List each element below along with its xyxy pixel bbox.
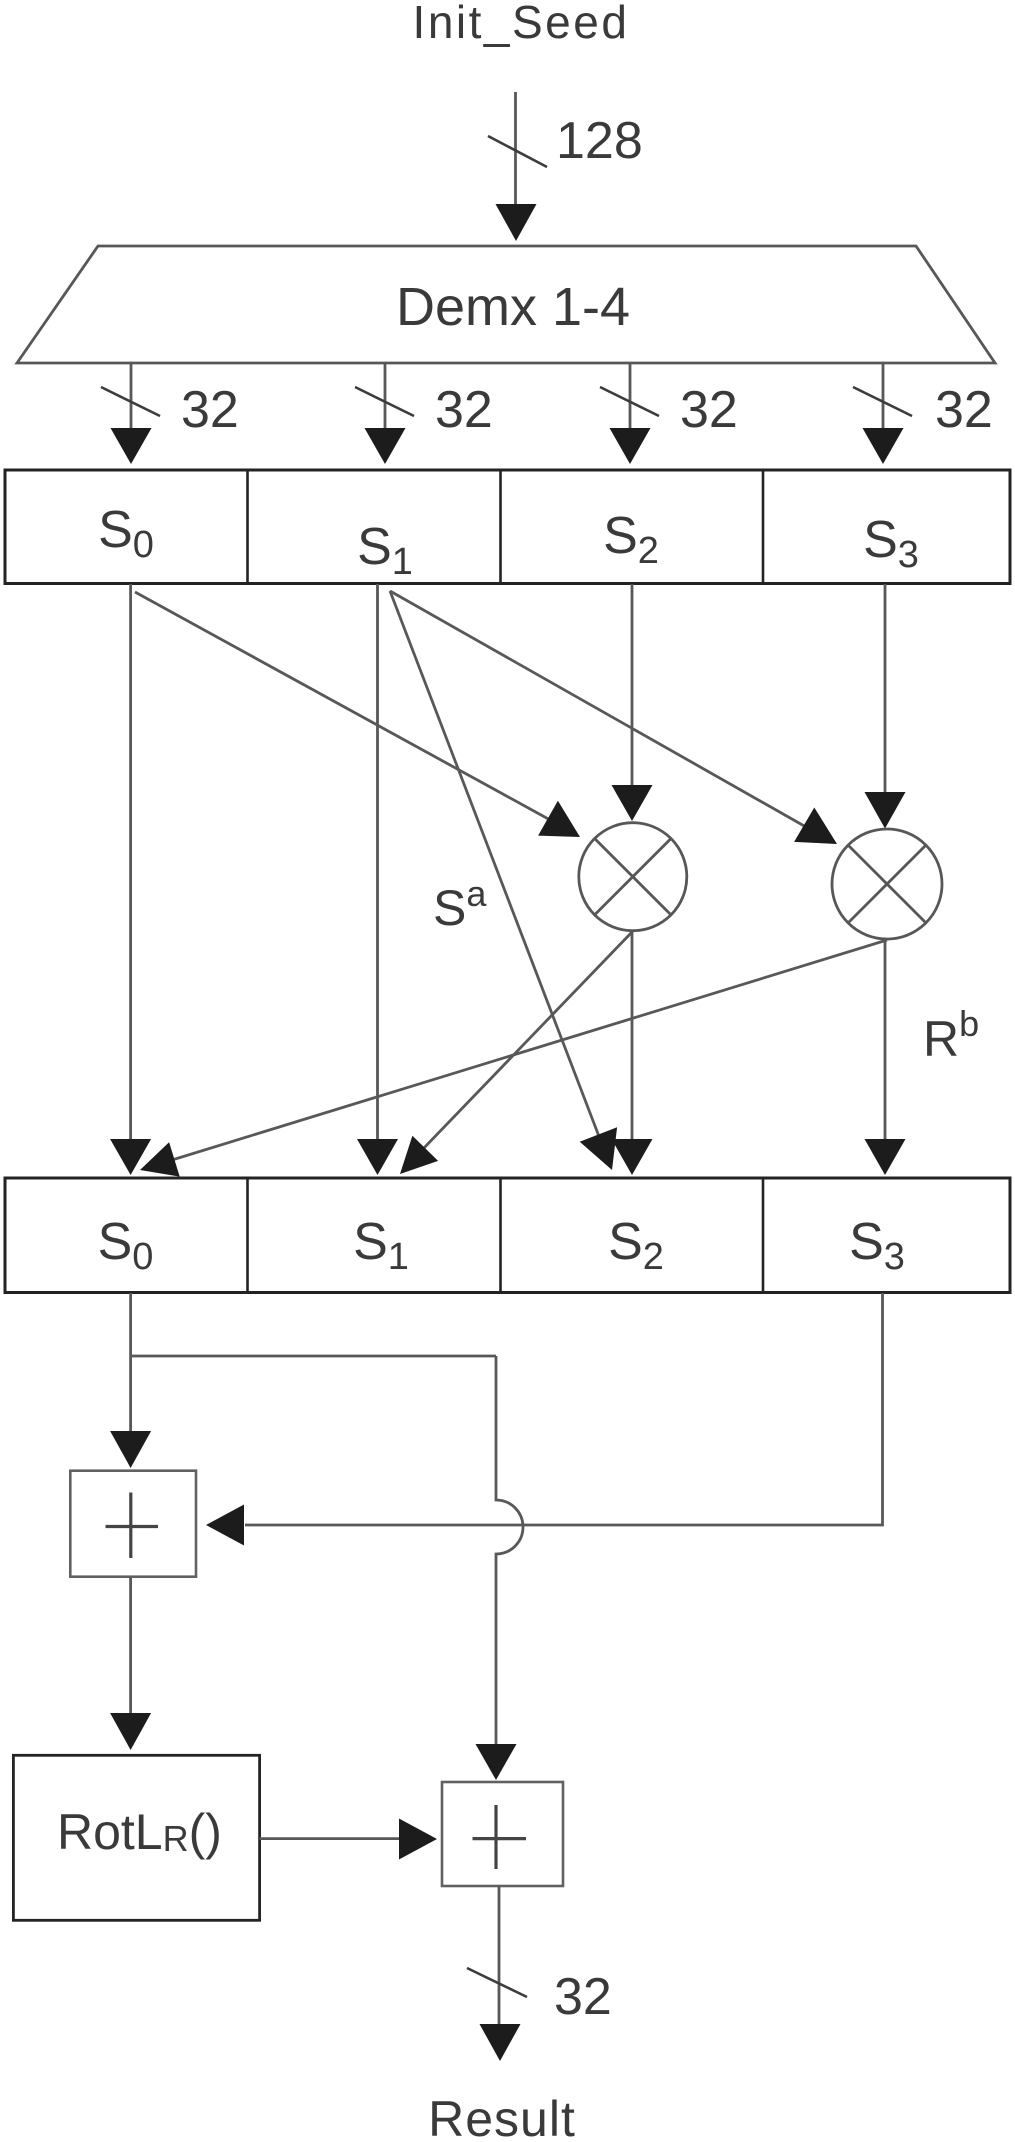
arrowhead S0 into register 2 <box>110 1139 151 1175</box>
register bank 2 divider 3 <box>762 1178 765 1293</box>
arrowhead Demx out 2 <box>610 428 651 464</box>
bus slash 32 out 2 <box>600 387 659 416</box>
wire diagonal S1 to xor2 <box>390 591 806 827</box>
xor gate 1 cross stroke 1 <box>595 839 671 915</box>
wire RotL box to adder 2 <box>260 1837 399 1840</box>
wire diagonal S0 to xor1 <box>135 592 552 821</box>
arrowhead into adder 1 top <box>110 1431 151 1468</box>
adder 2 plus vertical stroke <box>494 1805 497 1869</box>
svg-text:128: 128 <box>556 112 643 170</box>
adder 1 plus vertical stroke <box>129 1493 132 1559</box>
svg-text:Demx 1-4: Demx 1-4 <box>396 277 630 337</box>
register bank 2 divider 1 <box>246 1178 249 1293</box>
arrowhead xor2 diagonal into register 2 S0 <box>140 1142 180 1176</box>
demultiplexer Demx 1-4 trapezoid <box>17 246 995 363</box>
arrowhead xor2 into register 2 S3 <box>865 1139 906 1175</box>
adder 2 plus horizontal stroke <box>473 1837 527 1840</box>
arrowhead S1 diagonal into register 2 S2 <box>580 1127 617 1170</box>
svg-text:32: 32 <box>181 381 239 439</box>
adder 1 plus horizontal stroke <box>106 1525 159 1528</box>
wire branch S0 down with hop over feedback <box>496 1356 523 1744</box>
arrowhead into adder 2 left side <box>399 1819 437 1860</box>
adder 1 box <box>70 1471 196 1577</box>
arrowhead into adder 2 top <box>476 1744 517 1780</box>
arrowhead diagonal into xor1 left <box>538 801 580 837</box>
arrowhead diagonal into xor2 left <box>794 808 837 845</box>
register bank 1 outline <box>5 470 1010 584</box>
wire S2 down to xor1 <box>631 584 634 785</box>
wire diagonal xor1 to register 2 cell S1 <box>422 932 632 1150</box>
svg-text:32: 32 <box>680 381 738 439</box>
wire Demx out 2 <box>629 363 632 428</box>
bus slash 128 <box>488 136 547 167</box>
svg-text:32: 32 <box>935 381 993 439</box>
wire diagonal S1 to register 2 cell S2 <box>390 591 600 1139</box>
svg-text:RotLR(): RotLR() <box>57 1804 222 1860</box>
arrowhead S2 into xor1 <box>612 785 653 821</box>
arrowhead xor1 into register 2 S2 <box>612 1139 653 1175</box>
arrowhead into adder 1 right side <box>206 1505 244 1546</box>
register bank 1 divider 3 <box>762 470 765 584</box>
wire S0 down to register 2 <box>129 584 132 1139</box>
wire S3 down to xor2 <box>884 584 887 792</box>
wire register 2 S3 down and left to adder 1 <box>245 1293 883 1525</box>
arrowhead into RotL box <box>110 1713 151 1750</box>
svg-text:32: 32 <box>435 381 493 439</box>
register bank 2 outline <box>5 1178 1010 1293</box>
wire xor1 down to register 2 <box>631 931 634 1139</box>
svg-text:32: 32 <box>554 1968 612 2026</box>
arrowhead S3 into xor2 <box>865 792 906 829</box>
wire register 2 S0 down to adder 1 <box>129 1293 132 1431</box>
register bank 1 divider 1 <box>246 470 249 584</box>
rotate-left function box RotL_R() <box>13 1755 259 1920</box>
wire Init_Seed to Demx <box>514 92 517 205</box>
arrowhead Demx out 3 <box>863 428 904 464</box>
register bank 2 divider 2 <box>499 1178 502 1293</box>
wire adder 1 to RotL box <box>129 1577 132 1713</box>
arrowhead to Result <box>480 2024 521 2061</box>
xor gate 1 circle <box>579 823 687 931</box>
wire S1 down to register 2 <box>376 584 379 1139</box>
arrowhead Demx out 1 <box>365 428 406 464</box>
arrowhead xor1 diagonal into register 2 S1 <box>400 1136 438 1174</box>
svg-text:Result: Result <box>428 2091 576 2142</box>
wire Demx out 0 <box>130 363 133 428</box>
adder 2 box <box>442 1782 563 1886</box>
wire adder 2 to Result <box>498 1886 501 2024</box>
xor gate 2 cross stroke 2 <box>848 845 926 923</box>
bus slash 32 out 3 <box>853 387 912 416</box>
xor gate 2 cross stroke 1 <box>848 845 926 923</box>
register bank 1 divider 2 <box>499 470 502 584</box>
arrowhead Demx out 0 <box>111 428 152 464</box>
bus slash 32 out 1 <box>355 387 414 416</box>
xor gate 2 circle <box>832 829 942 939</box>
wire diagonal xor2 to register 2 cell S0 <box>172 940 887 1160</box>
wire xor2 down to register 2 <box>884 939 887 1139</box>
arrowhead S1 into register 2 <box>357 1139 398 1175</box>
bus slash 32 out 0 <box>101 387 160 416</box>
arrowhead into Demx <box>496 204 537 241</box>
wire branch S0 horizontal <box>131 1355 496 1358</box>
wire Demx out 3 <box>882 363 885 428</box>
xor gate 1 cross stroke 2 <box>595 839 671 915</box>
wire Demx out 1 <box>384 363 387 428</box>
bus slash 32 output <box>467 1968 527 1997</box>
svg-text:Init_Seed: Init_Seed <box>413 0 630 48</box>
